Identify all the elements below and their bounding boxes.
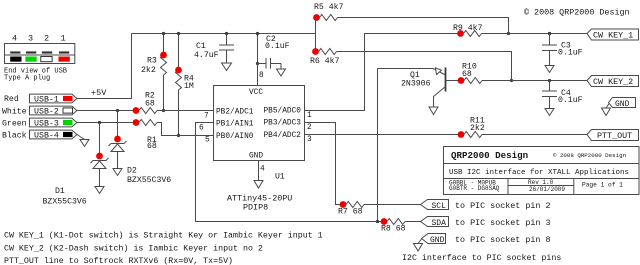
connector USB-2: [2, 106, 77, 116]
svg-text:+5V: +5V: [91, 88, 107, 98]
resistor R8: [381, 218, 421, 233]
transistor Q1 2N3906: [378, 68, 459, 115]
svg-text:Page 1 of 1: Page 1 of 1: [582, 182, 623, 189]
ground C2: [277, 69, 286, 76]
resistor R6: [310, 48, 513, 82]
svg-text:I2C interface to PIC socket pi: I2C interface to PIC socket pins: [402, 253, 561, 263]
wire R5/R6 vertical: [315, 18, 317, 52]
ground C1: [222, 63, 232, 71]
svg-text:PB3/ADC3: PB3/ADC3: [264, 120, 302, 128]
svg-text:PB4/ADC2: PB4/ADC2: [264, 132, 302, 140]
svg-text:R7 68: R7 68: [338, 208, 363, 217]
svg-text:2: 2: [44, 34, 49, 44]
svg-text:CW KEY_2: CW KEY_2: [593, 77, 633, 87]
svg-text:D1: D1: [55, 187, 65, 196]
USB plug end view drawing: [4, 34, 75, 83]
wire VCC pin 8 riser: [256, 32, 264, 86]
svg-text:3: 3: [307, 136, 312, 144]
wire +5V rail: [132, 33, 316, 35]
svg-text:R5 4k7: R5 4k7: [314, 2, 344, 12]
svg-text:GND: GND: [615, 100, 630, 109]
svg-text:1M: 1M: [184, 82, 194, 91]
svg-text:to PIC socket pin 2: to PIC socket pin 2: [455, 201, 551, 211]
svg-text:4: 4: [260, 166, 265, 174]
svg-text:2k2: 2k2: [141, 65, 156, 75]
svg-text:BZX55C3V6: BZX55C3V6: [43, 198, 87, 207]
svg-text:Green: Green: [2, 120, 27, 129]
diode D1 BZX55C3V6: [43, 123, 109, 207]
svg-text:68: 68: [145, 100, 155, 109]
svg-text:to PIC socket pin 8: to PIC socket pin 8: [455, 235, 551, 245]
svg-text:PB5/ADC0: PB5/ADC0: [264, 108, 302, 116]
ground + connector GND flag right: [602, 98, 636, 116]
resistor R9: [453, 23, 587, 37]
svg-text:White: White: [2, 107, 27, 117]
svg-text:USB-1: USB-1: [34, 95, 59, 104]
connector PTT_OUT flag: [587, 130, 639, 142]
wire Green row / resistor R1: [77, 119, 214, 151]
svg-text:PDIP8: PDIP8: [243, 203, 268, 213]
svg-text:CW KEY_1 (K1-Dot switch) is St: CW KEY_1 (K1-Dot switch) is Straight Key…: [4, 231, 323, 241]
svg-text:1: 1: [61, 34, 66, 44]
svg-text:R9 4k7: R9 4k7: [453, 23, 483, 33]
svg-text:C1: C1: [196, 42, 206, 51]
svg-text:0.1uF: 0.1uF: [558, 49, 583, 58]
resistor R5: [313, 2, 508, 34]
svg-text:PB1/AIN1: PB1/AIN1: [216, 121, 254, 129]
svg-text:QRP2000 Design: QRP2000 Design: [451, 150, 528, 161]
svg-text:Type A plug: Type A plug: [4, 75, 50, 83]
svg-text:4: 4: [12, 34, 17, 44]
capacitor C3: [542, 32, 583, 73]
capacitor C1: [194, 32, 234, 63]
svg-text:Black: Black: [2, 131, 27, 141]
wire pin1 net to R9: [305, 34, 461, 111]
resistor R3: [141, 32, 167, 112]
svg-text:68: 68: [462, 70, 472, 79]
svg-text:0.1uF: 0.1uF: [265, 42, 290, 51]
svg-text:D2: D2: [127, 167, 137, 176]
svg-text:5: 5: [205, 137, 210, 145]
svg-text:4.7uF: 4.7uF: [194, 51, 219, 60]
svg-text:CW KEY_1: CW KEY_1: [593, 31, 633, 41]
svg-text:SDA: SDA: [432, 219, 447, 228]
svg-text:0.1uF: 0.1uF: [558, 96, 583, 105]
capacitor C4: [542, 81, 583, 116]
svg-text:© 2008 QRP2000 Design: © 2008 QRP2000 Design: [553, 152, 626, 159]
svg-text:2N3906: 2N3906: [401, 80, 431, 89]
connector USB-1: [4, 94, 77, 104]
capacitor C2: [258, 35, 290, 69]
wire pin 4 / ground U1: [254, 161, 265, 189]
svg-text:Red: Red: [4, 94, 19, 104]
svg-text:to PIC socket pin 3: to PIC socket pin 3: [455, 218, 551, 228]
svg-text:SCL: SCL: [432, 202, 447, 211]
svg-text:2: 2: [307, 124, 312, 132]
resistor R4: [175, 32, 194, 137]
wire pin6 net to SDA: [196, 123, 385, 222]
op-amp U1 ATTiny45 IC body: [199, 86, 312, 213]
wire pin2 net to R7: [305, 123, 344, 205]
svg-text:Rev 1.0: Rev 1.0: [528, 179, 554, 186]
svg-text:USB-2: USB-2: [34, 107, 59, 116]
svg-text:6: 6: [199, 125, 204, 133]
wire USB-1 to +5V: [77, 34, 132, 99]
svg-text:USB-3: USB-3: [34, 119, 59, 128]
svg-text:68: 68: [147, 142, 157, 151]
resistor R10: [458, 63, 587, 84]
svg-text:PB2/ADC1: PB2/ADC1: [216, 109, 254, 117]
svg-text:R6 4k7: R6 4k7: [310, 56, 340, 66]
svg-text:GND: GND: [249, 153, 263, 161]
svg-text:R3: R3: [147, 57, 157, 66]
svg-text:PB0/AIN0: PB0/AIN0: [216, 133, 254, 141]
svg-text:USB I2C interface for XTALL Ap: USB I2C interface for XTALL Applications: [449, 169, 629, 177]
connector SDA flag: [421, 217, 551, 228]
svg-text:© 2008 QRP2000 Design: © 2008 QRP2000 Design: [524, 8, 630, 18]
svg-text:VCC: VCC: [249, 89, 263, 97]
wire pin3 net / resistor R11: [305, 117, 588, 138]
svg-text:26/01/2009: 26/01/2009: [529, 186, 565, 193]
title block: [444, 147, 640, 195]
svg-text:PTT_OUT: PTT_OUT: [597, 131, 632, 141]
svg-text:G0BTR - DG8SAQ: G0BTR - DG8SAQ: [449, 185, 500, 192]
svg-text:BZX55C3V6: BZX55C3V6: [127, 176, 171, 185]
svg-text:R8 68: R8 68: [381, 225, 406, 234]
diode D2 BZX55C3V6: [109, 111, 172, 186]
svg-text:CW KEY_2 (K2-Dash switch) is I: CW KEY_2 (K2-Dash switch) is Iambic Keye…: [4, 243, 263, 253]
svg-text:USB-4: USB-4: [34, 131, 59, 140]
wire Q1 emitter to SDA net: [377, 69, 379, 222]
svg-text:3: 3: [28, 34, 33, 44]
svg-text:2k2: 2k2: [470, 123, 485, 133]
connector CW_KEY_2 flag: [587, 76, 639, 88]
svg-text:7: 7: [204, 113, 209, 121]
svg-text:PTT_OUT line to Softrock RXTXv: PTT_OUT line to Softrock RXTXv6 (Rx=0V, …: [4, 256, 233, 265]
ground after USB-4: [77, 135, 89, 147]
connector CW_KEY_1 flag: [587, 29, 639, 41]
connector USB-3: [2, 118, 77, 128]
wire White row / resistor R2: [77, 92, 214, 114]
svg-text:8: 8: [259, 72, 264, 80]
svg-text:U1: U1: [275, 173, 285, 182]
svg-text:1: 1: [307, 112, 312, 120]
svg-text:GND: GND: [430, 236, 445, 245]
ground + connector GND flag bottom: [414, 234, 551, 252]
resistor R7: [338, 201, 421, 216]
connector USB-4: [2, 130, 77, 140]
connector SCL flag: [421, 200, 551, 211]
